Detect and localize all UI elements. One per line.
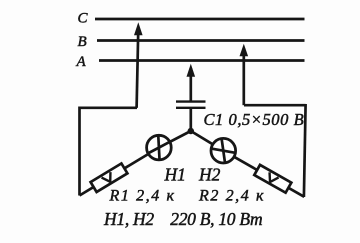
resistor R1 — [91, 163, 128, 192]
svg-text:H1: H1 — [164, 165, 186, 185]
wire: tap from phase B with arrow — [240, 44, 249, 105]
phase line B — [97, 39, 305, 42]
lamp H2 — [211, 138, 236, 163]
svg-text:B: B — [78, 34, 87, 50]
wire: lamp H2 to right corner — [223, 151, 304, 197]
phase line C — [95, 18, 305, 21]
lamp H1 — [147, 135, 172, 160]
node: junction dot — [188, 128, 194, 134]
svg-text:A: A — [76, 54, 87, 70]
wire: tap from phase C with arrow — [134, 22, 143, 108]
capacitor C1 — [176, 102, 206, 132]
wire: right horizontal segment — [244, 104, 306, 107]
svg-text:R1 2,4 к: R1 2,4 к — [109, 188, 176, 205]
wire: right vertical drop — [304, 104, 306, 197]
phase line A — [99, 59, 305, 62]
svg-text:C: C — [78, 10, 89, 26]
svg-text:R2 2,4 к: R2 2,4 к — [198, 188, 265, 205]
wire: node to lamp H1 — [159, 131, 191, 148]
resistor R2 — [254, 165, 291, 193]
wire: left vertical drop — [78, 107, 81, 196]
wire: node to lamp H2 — [191, 131, 224, 151]
svg-text:H1, H2 220 В, 10 Вт: H1, H2 220 В, 10 Вт — [103, 209, 262, 229]
svg-text:H2: H2 — [198, 165, 221, 185]
wire: lamp H1 to left corner — [80, 148, 159, 196]
wire: tap from phase A to capacitor with arrow — [187, 64, 196, 101]
svg-text:С1 0,5×500 В: С1 0,5×500 В — [204, 110, 305, 129]
wire: left horizontal segment — [80, 106, 138, 109]
